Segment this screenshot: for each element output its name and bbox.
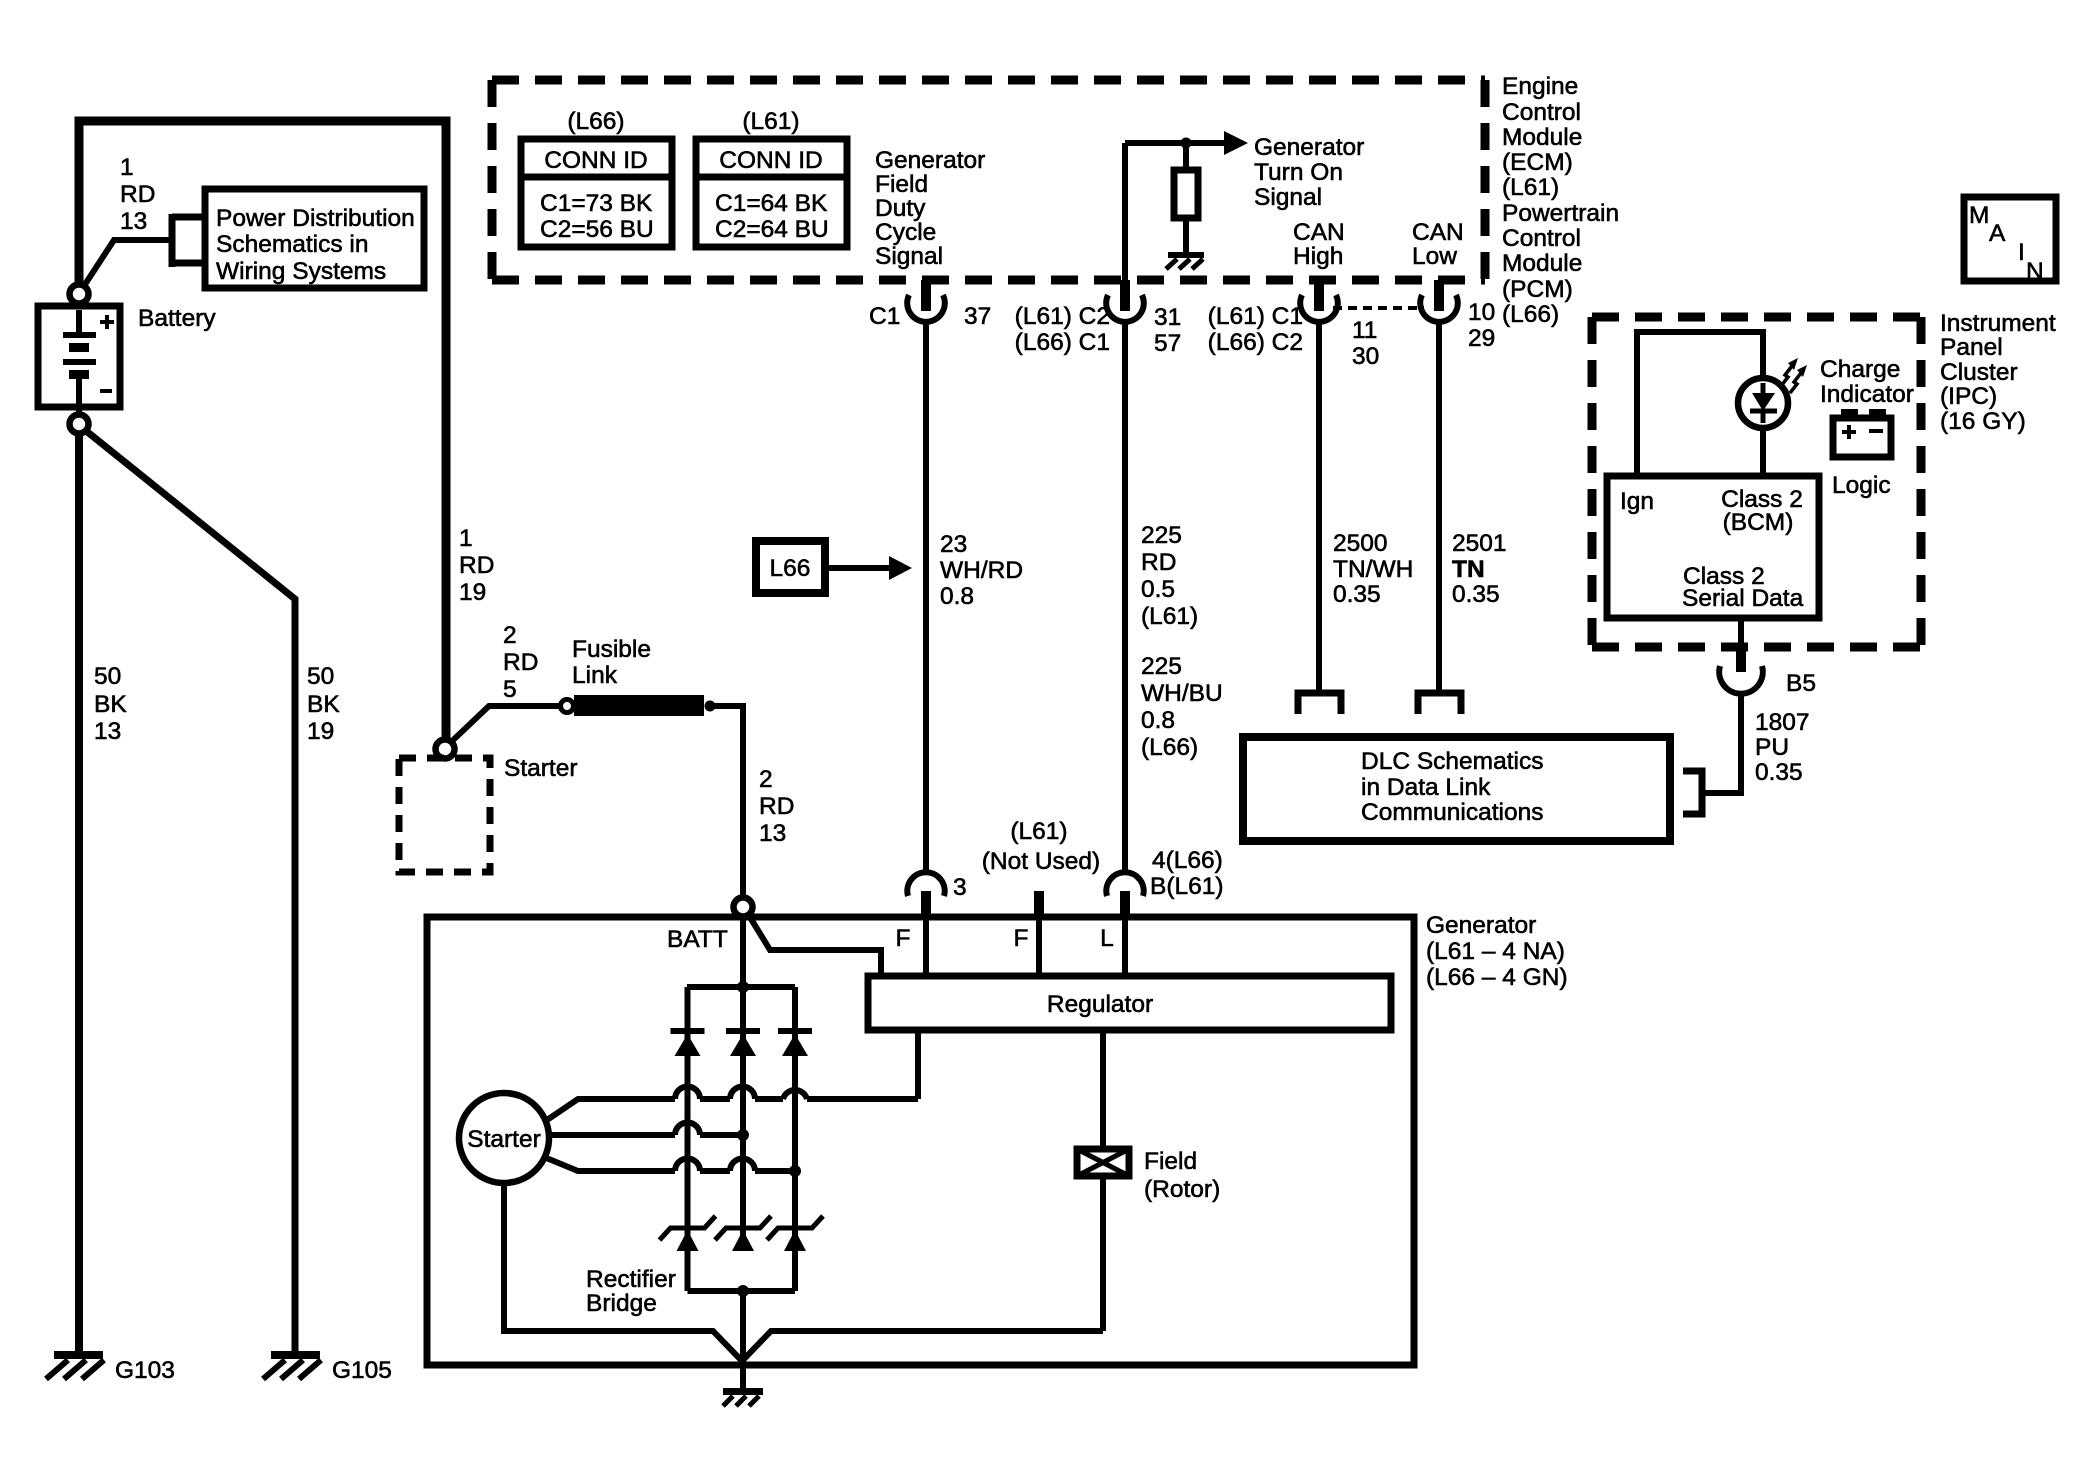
svg-text:Starter: Starter [504, 755, 578, 782]
stator hop line1 B [730, 1087, 755, 1100]
wire ECM internal CAN drop [1122, 143, 1128, 280]
connector C1/C2 pin 11/30 CAN High [1300, 280, 1338, 322]
LED emission arrows [1781, 358, 1807, 393]
svg-text:0.8: 0.8 [1141, 707, 1175, 734]
svg-text:225: 225 [1141, 653, 1182, 680]
svg-text:Turn On: Turn On [1254, 159, 1343, 186]
svg-text:0.35: 0.35 [1333, 581, 1381, 608]
svg-text:Rectifier: Rectifier [586, 1266, 676, 1293]
node bridge top junction [737, 981, 749, 993]
wire battery negative to G103 [75, 434, 83, 1354]
node battery negative junction [70, 415, 89, 434]
SECTION: ECM dashed module [492, 73, 1619, 370]
dashed link between CAN connectors [1333, 306, 1424, 310]
SECTION: DLC and IPC [1243, 197, 2056, 841]
svg-text:11: 11 [1352, 317, 1377, 344]
starter dashed box [399, 758, 490, 872]
svg-text:BK: BK [94, 691, 127, 718]
power distribution reference box [205, 189, 424, 288]
bracket to power distribution box [172, 214, 205, 267]
ground (ECM internal) [1166, 252, 1204, 269]
svg-text:Low: Low [1412, 243, 1457, 270]
svg-text:Engine: Engine [1502, 73, 1578, 100]
svg-text:50: 50 [307, 663, 334, 690]
wire field side ground bus [744, 1331, 1103, 1359]
stator hop line1 A [675, 1087, 700, 1100]
svg-text:Fusible: Fusible [572, 636, 651, 663]
wire 1807 PU class 2 serial data [1704, 694, 1741, 793]
svg-text:37: 37 [964, 303, 991, 330]
SECTION: left battery circuit [38, 121, 794, 1384]
resistor R (pull-up to ground) [1174, 146, 1198, 252]
stator winding line 2 [549, 1132, 743, 1138]
ground G105 [263, 1351, 321, 1379]
svg-text:BATT: BATT [667, 926, 728, 953]
fusible link element [574, 695, 704, 716]
svg-text:19: 19 [459, 579, 486, 606]
svg-text:Panel: Panel [1940, 334, 2003, 361]
svg-text:1: 1 [459, 525, 473, 552]
connector CAN High to DLC [1298, 693, 1341, 714]
svg-text:in Data Link: in Data Link [1361, 774, 1491, 801]
svg-text:4(L66): 4(L66) [1152, 847, 1223, 874]
ECM/PCM dashed module box [492, 80, 1485, 280]
diode top B [726, 1028, 760, 1056]
MAIN harness box [1964, 197, 2056, 285]
wire LED to BCM [1760, 428, 1766, 476]
svg-text:Powertrain: Powertrain [1502, 200, 1619, 227]
node stator line3 to leg C [789, 1165, 801, 1177]
connector C2/C1 pin 31/57 [1106, 280, 1144, 322]
svg-text:WH/RD: WH/RD [940, 557, 1023, 584]
svg-text:Duty: Duty [875, 195, 926, 222]
svg-text:2501: 2501 [1452, 530, 1507, 557]
wire starter to ground bus [504, 1183, 741, 1360]
svg-text:RD: RD [459, 552, 494, 579]
svg-text:2500: 2500 [1333, 530, 1388, 557]
svg-text:TN/WH: TN/WH [1333, 556, 1413, 583]
svg-text:Generator: Generator [1426, 912, 1536, 939]
svg-text:Control: Control [1502, 99, 1581, 126]
svg-text:PU: PU [1755, 734, 1789, 761]
label Generator Field Duty Cycle Signal [875, 147, 985, 270]
bridge phase leg A [685, 987, 691, 1291]
svg-text:RD: RD [1141, 549, 1176, 576]
svg-text:0.5: 0.5 [1141, 576, 1175, 603]
svg-text:Generator: Generator [875, 147, 985, 174]
generator housing box [427, 917, 1414, 1365]
node bridge bottom junction [737, 1285, 749, 1297]
svg-text:(L66) C2: (L66) C2 [1208, 329, 1303, 356]
svg-text:13: 13 [120, 208, 147, 235]
svg-text:(L61 – 4 NA): (L61 – 4 NA) [1426, 938, 1565, 965]
fusible link right terminal dot [705, 701, 716, 712]
svg-text:2: 2 [503, 622, 517, 649]
svg-text:3: 3 [953, 874, 967, 901]
svg-text:(IPC): (IPC) [1940, 383, 1997, 410]
svg-text:CONN ID: CONN ID [719, 147, 822, 174]
battery B1 [38, 306, 120, 415]
svg-text:G103: G103 [115, 1357, 175, 1384]
svg-text:57: 57 [1154, 330, 1181, 357]
svg-text:Signal: Signal [875, 243, 943, 270]
stator hop line2 A [675, 1123, 700, 1136]
stator winding line 1 [547, 1099, 918, 1120]
svg-text:B5: B5 [1786, 670, 1816, 697]
svg-text:G105: G105 [332, 1357, 392, 1384]
wire F2 terminal to regulator [1036, 918, 1042, 973]
DLC schematics reference box [1243, 737, 1670, 841]
stator winding line 3 [544, 1157, 795, 1171]
svg-text:DLC Schematics: DLC Schematics [1361, 748, 1543, 775]
svg-text:0.8: 0.8 [940, 583, 974, 610]
svg-text:BK: BK [307, 691, 340, 718]
stub not used terminal [1034, 891, 1044, 920]
wire F terminal to regulator [923, 918, 929, 973]
svg-text:(Rotor): (Rotor) [1144, 1176, 1220, 1203]
svg-text:Power Distribution: Power Distribution [216, 205, 415, 232]
svg-text:CAN: CAN [1293, 219, 1345, 246]
svg-text:M: M [1969, 202, 1989, 229]
svg-text:L66: L66 [770, 555, 811, 582]
wire generator turn on signal with arrow [1125, 140, 1224, 146]
wire bridge to case ground [740, 1291, 746, 1389]
svg-text:19: 19 [307, 718, 334, 745]
IPC dashed module box [1592, 317, 1921, 647]
label IPC module name [1940, 310, 2056, 435]
svg-text:Instrument: Instrument [1940, 310, 2056, 337]
svg-text:Charge: Charge [1820, 356, 1900, 383]
label ECM module name [1502, 73, 1619, 328]
svg-text:C1=73 BK: C1=73 BK [540, 190, 653, 217]
svg-text:WH/BU: WH/BU [1141, 680, 1223, 707]
svg-text:A: A [1989, 220, 2006, 247]
node starter feed junction [436, 740, 455, 759]
svg-text:(ECM): (ECM) [1502, 149, 1573, 176]
wire starter junction to fusible link [450, 706, 561, 743]
rectifier bridge bottom bus [688, 1288, 796, 1294]
wire 23 WH/RD field duty cycle [923, 321, 929, 874]
svg-text:Starter: Starter [467, 1126, 541, 1153]
svg-text:Link: Link [572, 662, 618, 689]
svg-text:(L66): (L66) [1502, 301, 1559, 328]
svg-text:(BCM): (BCM) [1723, 509, 1794, 536]
bridge phase leg B [740, 987, 746, 1251]
regulator box [868, 976, 1391, 1030]
svg-text:30: 30 [1352, 343, 1379, 370]
wire battery positive feed loop (1 RD 13 / 1 RD 19) [79, 121, 446, 741]
svg-text:13: 13 [759, 820, 786, 847]
connector generator terminal 4(L66) B(L61) [1106, 872, 1143, 920]
connector generator terminal 3 (F) [907, 872, 944, 920]
wire BATT to regulator [748, 914, 881, 973]
SECTION: generator [427, 818, 1568, 1406]
svg-text:RD: RD [503, 649, 538, 676]
bridge phase leg C [792, 987, 798, 1291]
svg-text:(L61) C1: (L61) C1 [1208, 303, 1303, 330]
wire 2501 TN CAN Low [1436, 321, 1442, 692]
svg-text:50: 50 [94, 663, 121, 690]
svg-text:L: L [1100, 925, 1114, 952]
svg-text:0.35: 0.35 [1755, 759, 1803, 786]
wire BATT to rectifier bridge [740, 917, 746, 987]
svg-text:F: F [896, 925, 911, 952]
svg-text:Bridge: Bridge [586, 1290, 657, 1317]
svg-text:Generator: Generator [1254, 134, 1364, 161]
connector C1 pin 37 [907, 280, 945, 322]
diode top C [778, 1028, 812, 1056]
svg-text:(L61): (L61) [1502, 174, 1559, 201]
stator hop line3 B [730, 1159, 755, 1172]
ground (generator case) [723, 1388, 763, 1406]
svg-text:Field: Field [1144, 1148, 1197, 1175]
svg-text:C1=64 BK: C1=64 BK [715, 190, 828, 217]
label Generator Turn On Signal [1254, 134, 1364, 211]
fusible link terminal circle [561, 700, 574, 713]
svg-text:Module: Module [1502, 250, 1582, 277]
field rotor winding symbol [1077, 1149, 1129, 1176]
svg-text:Regulator: Regulator [1047, 991, 1153, 1018]
label Generator (L61 - 4 NA) (L66 - 4 GN) [1426, 912, 1568, 991]
svg-text:23: 23 [940, 531, 967, 558]
wire BCM to B5 [1738, 618, 1744, 645]
svg-text:Indicator: Indicator [1820, 381, 1914, 408]
wire 2500 TN/WH CAN High [1316, 321, 1322, 692]
wire to power distribution bracket [82, 240, 172, 289]
node stator line2 to leg B [737, 1129, 749, 1141]
svg-text:(16 GY): (16 GY) [1940, 408, 2026, 435]
diode top A [671, 1028, 705, 1056]
svg-text:1: 1 [120, 154, 134, 181]
svg-text:Wiring Systems: Wiring Systems [216, 258, 386, 285]
svg-text:10: 10 [1468, 299, 1495, 326]
svg-text:31: 31 [1154, 304, 1181, 331]
stator hop line1 C [783, 1090, 807, 1099]
svg-text:Control: Control [1502, 225, 1581, 252]
svg-text:Module: Module [1502, 124, 1582, 151]
svg-text:B(L61): B(L61) [1150, 873, 1224, 900]
svg-text:5: 5 [503, 676, 517, 703]
logic battery symbol [1833, 409, 1891, 457]
wire regulator to field [1100, 1030, 1106, 1149]
connector CAN Low to DLC [1418, 693, 1461, 714]
svg-text:Serial Data: Serial Data [1682, 585, 1804, 612]
svg-text:High: High [1293, 243, 1343, 270]
svg-text:Logic: Logic [1832, 472, 1891, 499]
svg-text:RD: RD [120, 181, 155, 208]
svg-text:2: 2 [759, 766, 773, 793]
svg-text:CAN: CAN [1412, 219, 1464, 246]
zener diode bottom C [767, 1216, 823, 1251]
ground G103 [46, 1351, 104, 1379]
connector B5 [1719, 643, 1763, 694]
svg-text:(L66 – 4 GN): (L66 – 4 GN) [1426, 964, 1568, 991]
svg-text:(PCM): (PCM) [1502, 276, 1573, 303]
svg-text:(L66): (L66) [1141, 734, 1198, 761]
svg-text:C2=64 BU: C2=64 BU [715, 216, 829, 243]
svg-text:Cluster: Cluster [1940, 359, 2018, 386]
svg-text:Communications: Communications [1361, 799, 1543, 826]
SECTION: middle wires [756, 321, 1507, 874]
svg-text:Ign: Ign [1620, 488, 1654, 515]
wire regulator to stator [915, 1030, 921, 1099]
wire field to ground bus [1100, 1176, 1106, 1331]
LED charge indicator [1738, 378, 1788, 428]
svg-text:Cycle: Cycle [875, 219, 936, 246]
node BATT junction [734, 898, 753, 917]
node resistor tap junction [1181, 138, 1192, 149]
wire 225 RD / WH-BU turn on signal [1122, 321, 1128, 874]
svg-text:C1: C1 [869, 303, 900, 330]
svg-text:0.35: 0.35 [1452, 581, 1500, 608]
wire battery negative to G105 [85, 430, 295, 1354]
svg-text:225: 225 [1141, 522, 1182, 549]
svg-text:29: 29 [1468, 325, 1495, 352]
svg-text:Battery: Battery [138, 305, 216, 332]
connector id table L66 [521, 139, 672, 247]
svg-text:C2=56 BU: C2=56 BU [540, 216, 654, 243]
stator hop line3 A [675, 1159, 700, 1172]
wire L terminal to regulator [1122, 918, 1128, 973]
svg-text:RD: RD [759, 793, 794, 820]
svg-text:(L66): (L66) [567, 108, 624, 135]
connector pin 10/29 CAN Low [1420, 280, 1458, 322]
BCM class 2 box [1607, 476, 1819, 618]
svg-text:I: I [2018, 239, 2025, 266]
L66 flag box [756, 541, 825, 593]
svg-text:Schematics in: Schematics in [216, 231, 369, 258]
rectifier bridge top bus [687, 984, 795, 990]
connector id table L61 [696, 139, 847, 247]
wire Ign loop to charge indicator [1637, 332, 1763, 476]
svg-text:N: N [2026, 258, 2044, 285]
svg-text:CONN ID: CONN ID [544, 147, 647, 174]
svg-text:Signal: Signal [1254, 184, 1322, 211]
svg-text:(L61): (L61) [1141, 603, 1198, 630]
svg-text:F: F [1014, 925, 1029, 952]
svg-text:(Not Used): (Not Used) [982, 848, 1100, 875]
svg-text:TN: TN [1452, 556, 1485, 583]
svg-text:Field: Field [875, 171, 928, 198]
svg-text:(L61): (L61) [742, 108, 799, 135]
wire fusible link to generator BATT [714, 706, 743, 899]
arrow L66 to wire [829, 565, 889, 571]
bracket DLC to class 2 serial data [1683, 771, 1702, 814]
svg-text:13: 13 [94, 718, 121, 745]
svg-text:(L66) C1: (L66) C1 [1015, 329, 1110, 356]
zener diode bottom B [715, 1216, 771, 1251]
svg-text:(L61): (L61) [1010, 818, 1067, 845]
starter motor symbol [459, 1093, 549, 1183]
svg-text:1807: 1807 [1755, 709, 1810, 736]
zener diode bottom A [660, 1216, 716, 1251]
svg-text:(L61) C2: (L61) C2 [1015, 303, 1110, 330]
node battery positive junction [70, 285, 89, 304]
